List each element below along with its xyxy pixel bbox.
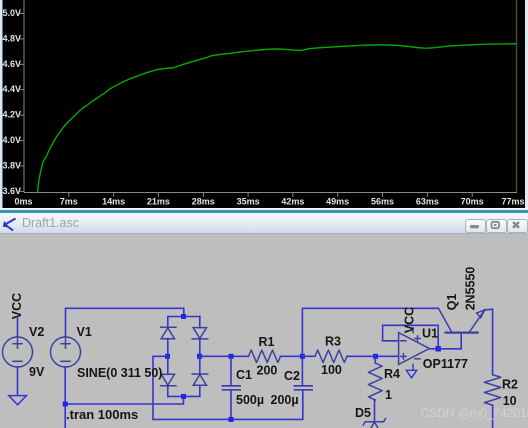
node C1 top: [229, 354, 234, 359]
diode D-bridge bottom-left (pointing down): [161, 356, 176, 396]
green voltage trace V(out): [38, 44, 518, 193]
capacitor C2: [294, 356, 312, 390]
wire R3 to op-amp + input: [347, 355, 399, 357]
minimize button: [465, 219, 486, 233]
svg-text:U1: U1: [422, 327, 438, 341]
wire C2 node up and across to Q1 collector: [302, 308, 438, 356]
svg-text:SINE(0 311 50): SINE(0 311 50): [77, 366, 162, 380]
svg-text:4.6V: 4.6V: [2, 59, 21, 69]
wire V1 return to bridge bottom node: [65, 396, 183, 404]
wire VCC stub to V2: [17, 319, 19, 338]
voltage source V1 symbol: [51, 337, 81, 367]
net label VCC (V2 supply): [10, 293, 24, 319]
svg-text:CSDN @m0_74201807: CSDN @m0_74201807: [421, 406, 528, 420]
wire op-amp output to node: [429, 348, 438, 350]
svg-text:49ms: 49ms: [326, 196, 349, 206]
y axis labels: [2, 8, 21, 196]
capacitor C1: [223, 356, 241, 419]
wire ground rail: [153, 390, 303, 419]
diode D5 (schottky, pointing up): [363, 418, 385, 428]
node bridge AC top: [181, 314, 186, 319]
svg-text:4.2V: 4.2V: [2, 110, 21, 120]
wire Q1 emitter to R2: [485, 309, 493, 374]
svg-text:.tran 100ms: .tran 100ms: [66, 407, 138, 422]
svg-text:77ms: 77ms: [501, 196, 524, 206]
resistor R4: [368, 356, 382, 400]
svg-text:63ms: 63ms: [416, 196, 439, 206]
wire R2 bottom: [492, 405, 494, 428]
diode D-bridge top-right (pointing down): [192, 317, 208, 357]
svg-text:100: 100: [321, 363, 342, 377]
svg-text:4.8V: 4.8V: [2, 33, 21, 43]
wire V1 top to bridge top node: [66, 308, 184, 337]
svg-text:200: 200: [257, 364, 278, 378]
svg-text:3.8V: 3.8V: [2, 161, 21, 171]
svg-text:VCC: VCC: [10, 293, 24, 319]
svg-text:Q1: Q1: [445, 294, 459, 311]
restore button: [486, 219, 507, 233]
wire C2 node to R3: [302, 355, 315, 357]
ground symbol (op-amp V-): [406, 370, 417, 378]
svg-text:R4: R4: [384, 367, 400, 381]
waveform plot pane: [0, 0, 528, 208]
svg-text:V1: V1: [77, 325, 92, 339]
diode D-bridge bottom-right (pointing up): [192, 356, 208, 396]
x axis labels: [14, 196, 524, 206]
node junction V1 bottom: [63, 402, 68, 407]
svg-text:D5: D5: [355, 406, 371, 420]
svg-text:14ms: 14ms: [102, 196, 125, 206]
svg-text:28ms: 28ms: [192, 196, 215, 206]
node C1 bottom on rail: [229, 417, 234, 422]
svg-text:C1: C1: [236, 368, 252, 382]
axis tick marks: [20, 14, 473, 197]
resistor R3: [315, 350, 347, 362]
wire R4 to D5: [374, 400, 376, 422]
resistor R2: [484, 375, 500, 405]
node op-amp output: [436, 346, 441, 351]
transistor Q1 (2N5550, upside-down NPN): [438, 308, 484, 332]
schematic pane: [0, 234, 528, 428]
schematic window title bar: [0, 208, 528, 234]
LTspice document icon: [3, 217, 18, 232]
svg-text:4.4V: 4.4V: [2, 84, 21, 94]
wire V1 bottom: [64, 367, 66, 428]
svg-text:35ms: 35ms: [237, 196, 260, 206]
svg-text:21ms: 21ms: [147, 196, 170, 206]
svg-text:70ms: 70ms: [461, 196, 484, 206]
close button: [507, 219, 528, 233]
plot left window border: [0, 0, 3, 208]
ground symbol (V2): [9, 396, 27, 405]
svg-text:3.6V: 3.6V: [2, 186, 21, 196]
svg-text:42ms: 42ms: [281, 196, 304, 206]
plot axes frame: [23, 0, 25, 193]
svg-text:7ms: 7ms: [60, 196, 78, 206]
svg-text:R1: R1: [259, 335, 275, 349]
wire bridge bottom bar: [168, 395, 200, 397]
wire bridge minus to ground rail: [153, 356, 168, 419]
node R3/R4 junction: [373, 354, 378, 359]
svg-text:V2: V2: [29, 325, 44, 339]
svg-text:9V: 9V: [29, 365, 45, 379]
wire bridge plus to R1: [200, 355, 249, 357]
svg-text:C2: C2: [284, 369, 300, 383]
svg-text:0ms: 0ms: [14, 196, 32, 206]
svg-text:1: 1: [385, 388, 392, 402]
svg-text:VCC: VCC: [403, 307, 417, 333]
op-amp U1 symbol: [399, 328, 430, 371]
svg-text:OP1177: OP1177: [423, 357, 468, 371]
wire R1 to C2 node: [281, 355, 303, 357]
svg-text:4.0V: 4.0V: [2, 135, 21, 145]
wire V2 to ground: [17, 367, 19, 395]
resistor R1: [249, 350, 281, 362]
diode D-bridge top-left (pointing up): [161, 317, 176, 357]
svg-text:R3: R3: [325, 335, 341, 349]
node bridge AC bottom: [181, 394, 186, 399]
wire output node to Q1 base: [438, 333, 461, 349]
node C2 top: [300, 354, 305, 359]
svg-text:56ms: 56ms: [371, 196, 394, 206]
svg-text:500µ: 500µ: [236, 393, 264, 407]
svg-text:200µ: 200µ: [271, 393, 299, 407]
voltage source V2 symbol: [3, 337, 33, 367]
node bridge left mid: [165, 354, 170, 359]
node bridge right mid: [197, 354, 202, 359]
wire bridge top bar: [168, 316, 200, 318]
svg-text:5.0V: 5.0V: [2, 8, 21, 18]
svg-text:R2: R2: [502, 378, 518, 392]
svg-text:2N5550: 2N5550: [464, 267, 478, 311]
op-amp U1 feedback wire: [383, 325, 439, 349]
